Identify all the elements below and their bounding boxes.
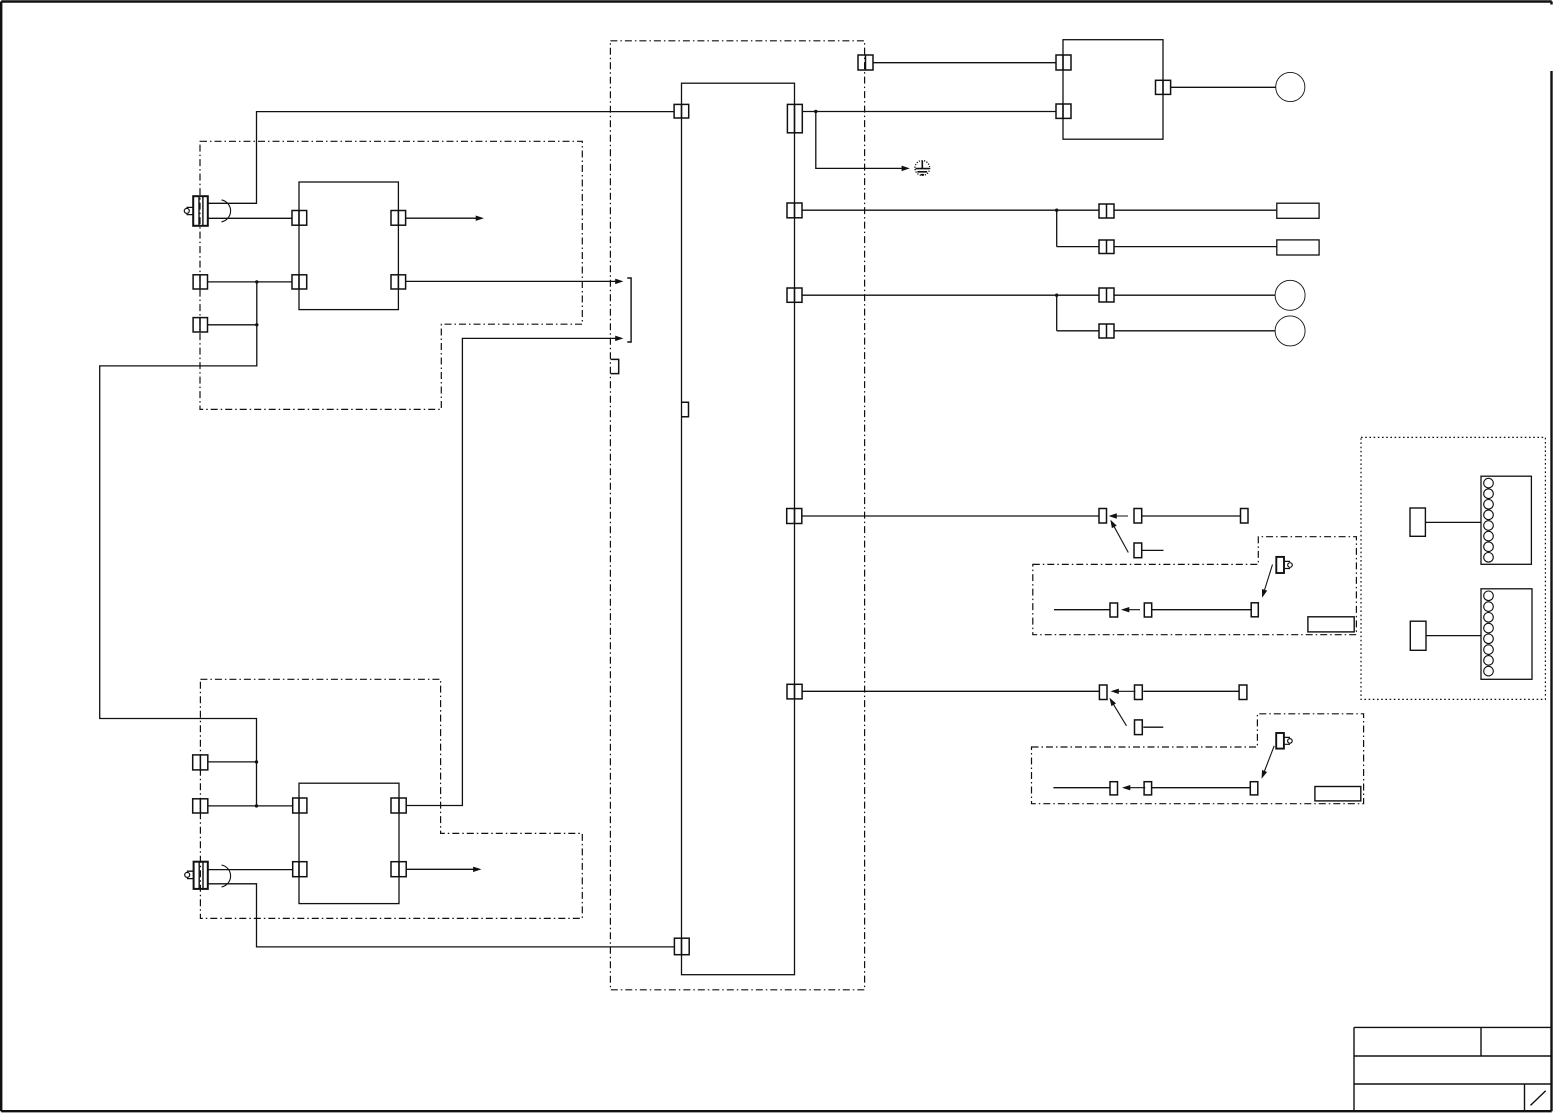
arrowhead E4 (1124, 609, 1141, 611)
terminal T10 row6 (1239, 685, 1247, 700)
node N6 (1055, 209, 1058, 212)
splice pin P4 (row4) (1099, 324, 1114, 338)
pin B4.3 right (1156, 80, 1171, 94)
diagonal arrow row6 (1111, 700, 1127, 726)
enclosure E2 (bottom-left control unit, dash-dot) (200, 679, 582, 918)
terminal X4 (E2 edge) (193, 799, 208, 813)
pin B3.4 right row3 (787, 288, 802, 302)
enclosure E3 (central junction unit, dash-dot) (610, 41, 864, 990)
terminal T11 row6 stub (1135, 720, 1143, 735)
wire W7 (B2 pin up to bracket arrow 2) (406, 338, 620, 805)
arrowhead W7 (616, 336, 623, 341)
terminal strip TS1 body (1481, 476, 1531, 564)
wire W9 (glow plug G2 to B2 pin) (208, 869, 293, 871)
node N7 (1055, 294, 1058, 297)
bracket K1 (627, 278, 631, 342)
box B2 (bottom-left module) (299, 783, 399, 903)
stub pin E3.a (left edge) (611, 359, 619, 373)
wire W18 (row 5 to connector splice) (802, 515, 1241, 517)
pin B2.3 right (391, 798, 406, 813)
wire W11 (terminal X3 to node) (208, 761, 257, 763)
pin B1.2 left (292, 275, 307, 289)
wire W3 (terminal X1 to B1 pin 2) (208, 281, 293, 283)
terminal T4 row5 stub (1134, 543, 1142, 558)
wire W10 (glow plug G2 to B3 bottom pin) (208, 884, 675, 947)
terminal strip TS1 screws (1484, 478, 1494, 562)
terminal strip TS2 screws (1484, 591, 1494, 676)
arrowhead row5 (1111, 515, 1128, 517)
wire W14 (B3 tall pin to B4 pin 2 and ground branch) (802, 112, 1056, 169)
pin B3.7 bottom-left (674, 938, 689, 955)
label box L1 (E4) (1308, 617, 1354, 632)
lamp H3 (1275, 316, 1305, 346)
arrowhead W14 ground (902, 166, 909, 171)
pin B1.3 right (391, 211, 406, 226)
terminal X2 (E1 edge) (193, 318, 207, 332)
terminal T14 E5 (1250, 782, 1258, 795)
diagonal arrow E5 plug (1262, 746, 1274, 777)
fuse F2 (1277, 240, 1319, 255)
terminal T7 E4 (1251, 603, 1258, 617)
terminal T5 E4 (1110, 603, 1118, 617)
pin B3.3 right row1 (787, 203, 802, 218)
wire W15 (B4 to indicator lamp H1) (1171, 86, 1276, 88)
node N3 (255, 760, 258, 763)
node N4 (255, 804, 258, 807)
plug J2 (E5) (1276, 733, 1292, 749)
diagonal arrow row5 (1112, 522, 1129, 553)
splice pin P2 (row2) (1099, 240, 1114, 254)
terminal strip TS2 plug rect (1410, 621, 1426, 650)
wire W1 (glow plug G1 to B3 pin 1) (208, 112, 675, 204)
terminal T8 row6 (1099, 685, 1107, 700)
box B3 (central tall unit) (682, 83, 795, 975)
title block (1354, 1027, 1551, 1111)
splice pin P1 (row1) (1099, 204, 1114, 218)
wire W4 (terminal X2 via left bypass to E2) (100, 282, 257, 806)
terminal T9 row6 (1135, 685, 1143, 700)
wire W2 (glow plug G1 to B1 pin) (208, 217, 292, 219)
wire W6 (B1 pin to bracket arrow 1) (406, 280, 621, 282)
lamp H2 (1275, 280, 1305, 310)
node N5 (814, 110, 817, 113)
wire W12 (terminal X4 to B2 pin 1) (208, 805, 293, 807)
pin B1.4 right (391, 275, 406, 289)
stub pin B3.8 (left edge) (682, 402, 689, 417)
pin B2.1 left (293, 798, 307, 813)
arrowhead E5 (1125, 787, 1146, 789)
pin B2.4 right (391, 862, 406, 877)
terminal T3 row5 (1241, 509, 1249, 524)
terminal strip TS2 body (1481, 589, 1532, 680)
wire W22 (terminal strip leads) (1425, 522, 1481, 635)
pin B1.1 left (292, 211, 307, 226)
wire W16a (row 1 feed) (802, 210, 1277, 246)
arrowhead W5 (476, 216, 483, 221)
box B1 (top-left module) (299, 182, 398, 310)
arrowhead W8 (473, 867, 480, 872)
pin E3.b boundary top (858, 55, 873, 70)
pin B2.2 left (293, 862, 307, 877)
arrowhead W6 (616, 279, 623, 284)
arrowhead row6 (1113, 690, 1135, 692)
twisted-pair arc A1 (222, 200, 231, 222)
plug J1 (E4) (1276, 557, 1292, 573)
wire W13 (E3 boundary pin to B4 pin 1) (873, 62, 1056, 64)
wire W21 (E5 internal run) (1053, 787, 1250, 789)
fuse F1 (1277, 203, 1319, 218)
ground symbol PE (915, 161, 930, 176)
wire W17 (rows 3-4 feed) (802, 295, 1275, 331)
wire W8 (B2 out arrow) (406, 868, 479, 870)
terminal T2 row5 (1134, 509, 1142, 524)
pin B4.1 left (1056, 55, 1071, 70)
enclosure E6 (terminal strip cabinet, dotted) (1361, 437, 1545, 699)
node N1 (255, 280, 258, 283)
terminal T1 row5 (1099, 509, 1107, 524)
pin B4.2 left (1056, 104, 1071, 118)
enclosure E1 (top-left control unit, dash-dot) (200, 141, 582, 409)
terminal T12 E5 (1110, 782, 1118, 795)
stub terminal row5 (1142, 549, 1164, 551)
glow plug G1 (top-left) (184, 196, 208, 226)
terminal T13 E5 (1144, 782, 1152, 795)
terminal T6 E4 (1144, 603, 1151, 617)
twisted-pair arc A2 (222, 865, 231, 887)
pin B3.6 right row6 (787, 684, 802, 699)
node N2 (255, 323, 258, 326)
terminal X1 (E1 edge) (193, 275, 207, 289)
pin B3.5 right row5 (787, 509, 802, 524)
label box L2 (E5) (1315, 787, 1361, 801)
pin B3.2 tall top-right (787, 104, 802, 132)
terminal strip TS1 plug rect (1410, 508, 1425, 536)
terminal X3 (E2 edge) (193, 755, 208, 770)
pin B3.1 top-left (674, 104, 689, 118)
stub terminal row6 (1143, 726, 1163, 728)
box B4 (top-right module) (1063, 40, 1163, 140)
enclosure E4 (mid-right harness box, dash-dot) (1033, 537, 1357, 635)
splice pin P3 (row3) (1099, 288, 1114, 302)
wire W20 (row 6 to connector splice) (802, 690, 1239, 692)
wire W5 (B1 out arrow) (406, 217, 482, 219)
wire W19 (E4 internal run) (1054, 609, 1251, 611)
lamp H1 (1276, 72, 1305, 101)
diagonal arrow E4 plug (1263, 565, 1273, 596)
enclosure E5 (lower-right harness box, dash-dot) (1032, 714, 1364, 804)
glow plug G2 (bottom-left) (185, 862, 208, 889)
